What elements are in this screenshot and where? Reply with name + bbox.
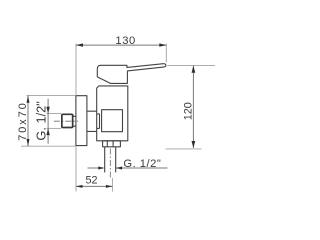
svg-text:52: 52 xyxy=(85,174,97,186)
svg-text:70x70: 70x70 xyxy=(17,101,29,140)
svg-text:G. 1/2": G. 1/2" xyxy=(34,101,49,140)
svg-text:130: 130 xyxy=(115,35,135,47)
svg-text:G. 1/2": G. 1/2" xyxy=(123,158,161,170)
svg-text:120: 120 xyxy=(182,102,194,120)
